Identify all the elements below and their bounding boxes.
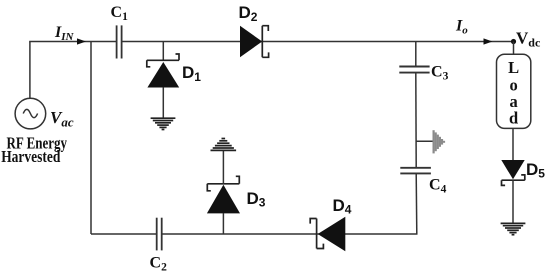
node Vdc (511, 39, 516, 44)
wire load to D5 (512, 128, 514, 160)
diode D5 (501, 160, 525, 223)
svg-text:L: L (508, 58, 519, 77)
arrow IIN (77, 38, 86, 44)
diode D4 (310, 217, 345, 251)
svg-text:d: d (509, 109, 518, 128)
wire top rail right of C1 (122, 41, 514, 43)
capacitor C1 (117, 25, 122, 58)
arrow Io (484, 38, 493, 44)
diode D1 (147, 42, 179, 118)
wire bottom rail left of C2 (91, 233, 156, 235)
capacitor C4 (400, 168, 431, 174)
wire left branch vertical (90, 42, 92, 235)
ground below D5 (501, 223, 526, 234)
AC source Vac (15, 98, 46, 129)
ground below D1 (151, 118, 176, 129)
wire Vdc to load (513, 42, 515, 55)
svg-text:Harvested: Harvested (1, 147, 60, 166)
diode D3 (207, 150, 240, 234)
wire source to top rail (29, 42, 31, 99)
wire stub to gray arrow (416, 140, 433, 142)
wire bottom rail right of C2 (162, 233, 418, 235)
gray arrow marker (434, 130, 444, 153)
capacitor C2 (157, 218, 162, 251)
diode D2 (240, 26, 269, 58)
capacitor C3 (399, 67, 429, 73)
wire top rail left segment (29, 41, 116, 43)
up symbol above D3 (211, 139, 237, 151)
load box (497, 54, 531, 128)
wire C3/C4 branch (416, 42, 417, 235)
